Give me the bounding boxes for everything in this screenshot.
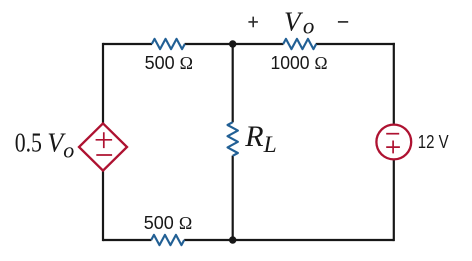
diamond minus sign	[96, 154, 112, 156]
svg-text:o: o	[303, 13, 315, 38]
svg-text:1000 Ω: 1000 Ω	[271, 53, 328, 73]
svg-text:o: o	[63, 137, 74, 162]
node junction dot top	[229, 40, 236, 47]
resistor R3 (500 ohm, bottom)	[151, 235, 184, 245]
wire right vertical upper	[393, 43, 395, 125]
svg-text:500 Ω: 500 Ω	[145, 53, 193, 73]
wire left vertical lower	[102, 170, 104, 241]
wire middle vertical upper	[232, 44, 234, 122]
svg-text:12 V: 12 V	[418, 132, 449, 152]
circle minus sign	[386, 133, 399, 135]
wire middle vertical lower	[232, 156, 234, 240]
resistor RL (load, vertical)	[228, 122, 238, 156]
resistor R2 (1000 ohm, top right)	[283, 39, 316, 49]
independent voltage source V1 (circle)	[376, 125, 411, 160]
svg-text:0.5: 0.5	[15, 128, 42, 158]
circle plus sign	[386, 141, 400, 154]
wire left vertical upper	[102, 43, 104, 124]
dependent voltage source (diamond) 0.5Vo	[79, 123, 127, 170]
diamond plus sign	[96, 132, 113, 148]
wire bottom-left horizontal	[103, 239, 151, 241]
resistor R1 (500 ohm, top left)	[152, 39, 185, 49]
wire bottom-right horizontal	[184, 239, 394, 241]
wire top-right horizontal	[316, 43, 395, 45]
wire right vertical lower	[393, 159, 395, 241]
wire top-left horizontal	[103, 43, 152, 45]
polarity plus sign of Vo	[248, 17, 258, 28]
node junction dot bottom	[229, 236, 236, 243]
wire top-middle horizontal	[185, 43, 284, 45]
svg-text:500 Ω: 500 Ω	[144, 213, 192, 233]
polarity minus sign of Vo	[338, 21, 348, 23]
